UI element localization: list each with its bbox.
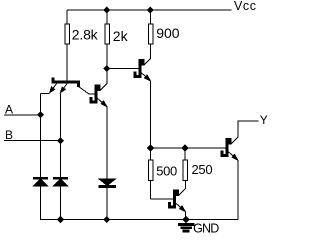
R1 value label 2.8k xyxy=(72,27,99,43)
junction dot R4 top node xyxy=(148,145,154,151)
transistor Q3 driver xyxy=(134,59,151,81)
svg-text:2k: 2k xyxy=(113,28,129,44)
transistor Q5 pull-down output xyxy=(169,189,186,212)
resistor R1 2.8k xyxy=(65,10,69,81)
ground symbol xyxy=(179,220,194,233)
transistor Q4 pull-up output xyxy=(221,137,238,160)
wire Q2 collector to node xyxy=(106,69,108,84)
junction dot at R3 top on Vcc rail xyxy=(147,7,153,13)
resistor R2 2k xyxy=(105,10,109,69)
diode D1 input clamp A xyxy=(34,177,48,219)
diode D3 level shift xyxy=(99,179,115,220)
svg-text:GND: GND xyxy=(193,221,219,235)
ground rail xyxy=(40,219,238,221)
junction dot D3 on ground rail xyxy=(104,217,110,223)
svg-text:2.8k: 2.8k xyxy=(72,27,99,43)
diode D2 input clamp B xyxy=(54,177,68,219)
input label B xyxy=(5,128,13,142)
wire Q3 emitter down to node xyxy=(150,81,152,148)
wire node to Q3 base xyxy=(107,68,139,70)
GND label xyxy=(193,221,219,235)
junction dot R5 top node xyxy=(182,145,188,151)
wire input B xyxy=(4,94,61,178)
node dot input B xyxy=(58,138,64,144)
wire Q2 emitter down to diode D3 xyxy=(106,106,108,179)
wire Q5 emitter to ground rail xyxy=(185,211,187,219)
junction dot node Q2 collector xyxy=(104,66,110,72)
transistor Q2 phase splitter xyxy=(90,84,107,107)
junction dot ground symbol node xyxy=(183,217,189,223)
svg-text:B: B xyxy=(5,128,13,142)
resistor R3 900 xyxy=(148,10,152,53)
svg-text:A: A xyxy=(5,103,13,117)
Vcc rail xyxy=(67,9,232,11)
junction dot D2 on ground rail xyxy=(58,217,64,223)
svg-text:500: 500 xyxy=(156,164,177,179)
output label Y xyxy=(260,113,268,127)
svg-text:900: 900 xyxy=(156,25,180,41)
wire node to Q4 base xyxy=(151,147,227,149)
svg-text:Vcc: Vcc xyxy=(234,0,257,13)
wire Q4 collector to output Y xyxy=(238,121,259,137)
R2 value label 2k xyxy=(113,28,129,44)
input label A xyxy=(5,103,13,117)
wire Q4 emitter down to ground rail xyxy=(237,160,239,220)
svg-text:250: 250 xyxy=(192,162,213,177)
svg-text:Y: Y xyxy=(260,113,268,127)
Vcc label xyxy=(234,0,257,13)
wire Q3 collector to R3 xyxy=(150,44,152,59)
resistor R5 250 xyxy=(183,148,187,189)
R3 value label 900 xyxy=(156,25,180,41)
R5 value label 250 xyxy=(192,162,213,177)
node dot input A xyxy=(38,112,44,118)
resistor R4 500 xyxy=(148,148,173,199)
wire input A xyxy=(4,94,41,178)
R4 value label 500 xyxy=(156,164,177,179)
junction dot at R2 top on Vcc rail xyxy=(104,7,110,13)
transistor Q1 multi-emitter input xyxy=(41,78,96,94)
